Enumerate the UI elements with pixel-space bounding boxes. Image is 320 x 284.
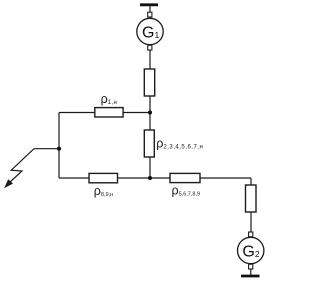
svg-text:ρ2,3,4,5,6,7,н: ρ2,3,4,5,6,7,н: [156, 136, 203, 150]
svg-text:ρ8,9,н: ρ8,9,н: [94, 184, 113, 198]
svg-text:ρ1,н: ρ1,н: [101, 92, 118, 106]
svg-text:ρ5,6,7,8,9: ρ5,6,7,8,9: [172, 183, 201, 197]
